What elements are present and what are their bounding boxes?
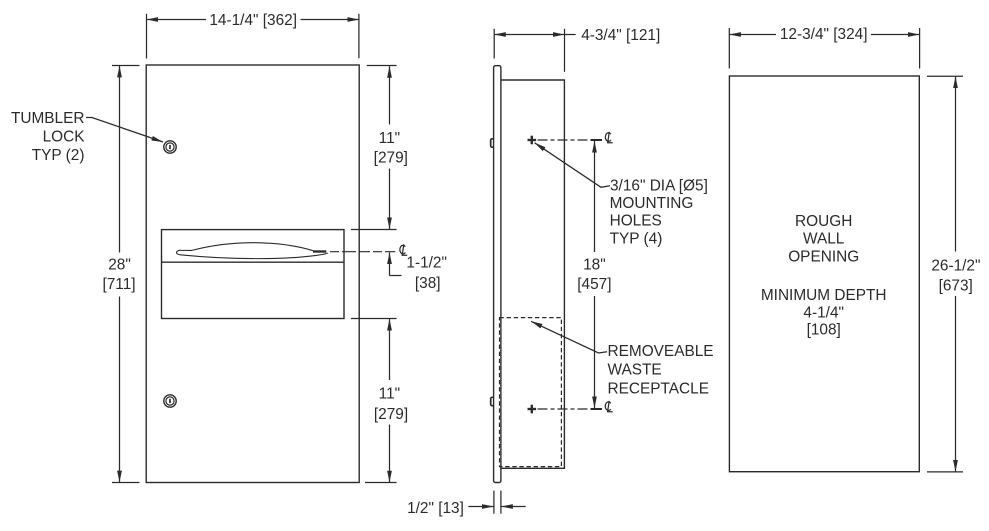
flange dim ext right bbox=[500, 491, 502, 514]
tumbler lock upper bbox=[164, 141, 176, 153]
svg-text:11": 11" bbox=[379, 385, 400, 402]
svg-text:MOUNTING: MOUNTING bbox=[610, 195, 694, 212]
height dim tick bottom left bbox=[112, 482, 140, 484]
waste receptacle leader bbox=[531, 321, 607, 353]
depth dim ext right bbox=[564, 29, 566, 72]
opening width ext right bbox=[919, 28, 921, 69]
height dim tick top left bbox=[112, 65, 140, 67]
svg-text:OPENING: OPENING bbox=[788, 248, 859, 265]
svg-text:[457]: [457] bbox=[577, 276, 611, 293]
label rough wall opening bbox=[761, 213, 887, 339]
svg-text:WASTE: WASTE bbox=[608, 362, 662, 379]
side view body bbox=[501, 80, 565, 468]
opening height tick bottom bbox=[927, 471, 963, 473]
svg-text:[108]: [108] bbox=[807, 322, 841, 339]
svg-text:3/16" DIA [Ø5]: 3/16" DIA [Ø5] bbox=[610, 178, 708, 195]
depth dim line 4-3/4 bbox=[494, 34, 564, 36]
svg-text:REMOVEABLE: REMOVEABLE bbox=[608, 343, 714, 360]
right ext tick top bbox=[367, 65, 397, 67]
label TUMBLER LOCK TYP (2) bbox=[11, 110, 85, 164]
svg-text:[279]: [279] bbox=[374, 149, 408, 166]
svg-text:14-1/4" [362]: 14-1/4" [362] bbox=[209, 12, 297, 29]
towel slot centerline dash-dot bbox=[330, 251, 395, 253]
dim line 11 bottom bbox=[389, 319, 391, 380]
towel right tab edge bbox=[313, 250, 326, 252]
width dim extension line right bbox=[358, 14, 360, 59]
label mounting holes bbox=[610, 178, 708, 248]
right ext tick opening bottom bbox=[351, 318, 397, 320]
width dim line 14-1/4 bbox=[147, 19, 206, 21]
mounting hole cross upper bbox=[528, 136, 537, 145]
centerline symbol side upper bbox=[605, 132, 612, 143]
svg-text:4-3/4" [121]: 4-3/4" [121] bbox=[581, 27, 660, 44]
opening width ext left bbox=[728, 28, 730, 69]
front view cabinet outline bbox=[146, 65, 359, 483]
dim line 1-1/2 bbox=[389, 252, 391, 275]
svg-text:[38]: [38] bbox=[415, 275, 441, 292]
svg-text:18": 18" bbox=[583, 256, 606, 273]
dim line 18 bbox=[594, 141, 596, 252]
label removable waste receptacle bbox=[608, 343, 714, 398]
side lock bump upper bbox=[491, 139, 494, 147]
depth dim ext left bbox=[493, 29, 495, 59]
flange dim ext left bbox=[493, 491, 495, 514]
svg-text:TUMBLER: TUMBLER bbox=[11, 110, 85, 127]
svg-text:[279]: [279] bbox=[374, 406, 408, 423]
towel tray opening rect bbox=[162, 230, 345, 319]
svg-text:[673]: [673] bbox=[939, 277, 973, 294]
tumbler lock leader bbox=[86, 118, 163, 143]
tumbler lock lower bbox=[164, 395, 176, 407]
svg-text:28": 28" bbox=[108, 256, 131, 273]
hole centerline dash-dot lower bbox=[538, 408, 589, 410]
svg-text:ROUGH: ROUGH bbox=[795, 213, 852, 230]
towel tray divider line bbox=[162, 261, 345, 263]
svg-text:MINIMUM DEPTH: MINIMUM DEPTH bbox=[761, 287, 887, 304]
svg-text:WALL: WALL bbox=[803, 231, 845, 248]
height dim line 28 bbox=[119, 66, 121, 253]
width dim extension line left bbox=[146, 14, 148, 59]
mounting hole cross lower bbox=[528, 405, 537, 414]
svg-text:12-3/4" [324]: 12-3/4" [324] bbox=[780, 26, 868, 43]
centerline symbol side lower bbox=[605, 401, 612, 412]
svg-text:[711]: [711] bbox=[102, 276, 135, 293]
opening width dim line 12-3/4 bbox=[729, 34, 776, 36]
centerline symbol front bbox=[400, 244, 407, 255]
svg-text:11": 11" bbox=[379, 130, 400, 147]
svg-text:LOCK: LOCK bbox=[43, 128, 86, 145]
flange dim arrows 1/2 bbox=[468, 506, 493, 508]
mounting holes leader bbox=[535, 143, 610, 188]
svg-text:HOLES: HOLES bbox=[610, 213, 662, 230]
svg-text:1/2" [13]: 1/2" [13] bbox=[407, 500, 464, 517]
rough wall opening rect bbox=[729, 76, 919, 472]
svg-text:26-1/2": 26-1/2" bbox=[931, 258, 980, 275]
svg-text:TYP (4): TYP (4) bbox=[610, 230, 663, 247]
hole centerline dash-dot upper bbox=[538, 139, 589, 141]
right ext tick opening top bbox=[351, 229, 397, 231]
svg-text:TYP (2): TYP (2) bbox=[32, 147, 85, 164]
paper towel lens shape bbox=[176, 243, 327, 259]
svg-text:RECEPTACLE: RECEPTACLE bbox=[608, 380, 710, 397]
side lock bump lower bbox=[491, 397, 494, 405]
side view wall flange bbox=[494, 66, 501, 483]
svg-text:4-1/4": 4-1/4" bbox=[803, 305, 844, 322]
opening height dim line 26-1/2 bbox=[955, 77, 957, 252]
removable waste receptacle dashed bbox=[500, 318, 562, 467]
svg-text:1-1/2": 1-1/2" bbox=[406, 255, 447, 272]
opening height tick top bbox=[927, 75, 963, 77]
right ext tick bottom bbox=[365, 482, 397, 484]
dim line 11 top bbox=[389, 66, 391, 124]
